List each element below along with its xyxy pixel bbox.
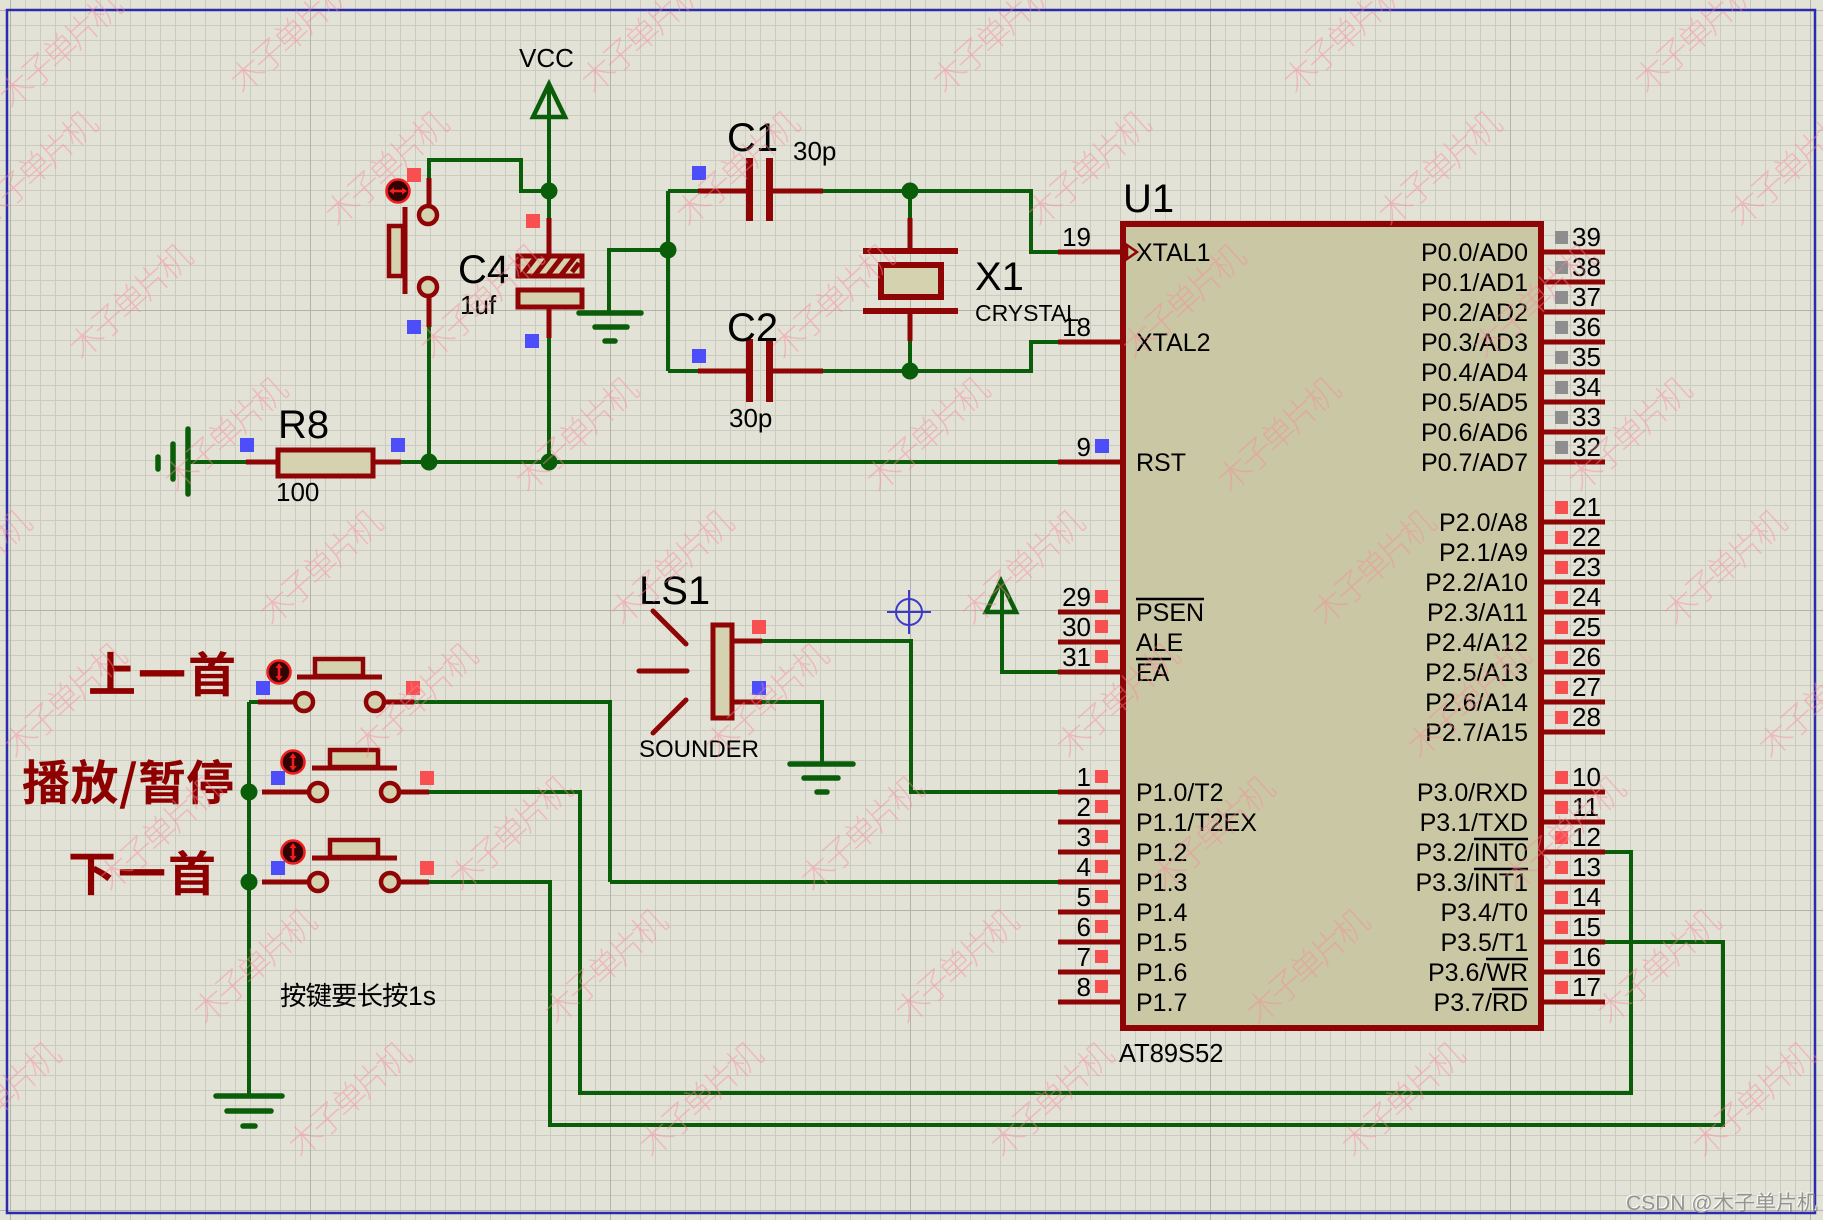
svg-text:P3.4/T0: P3.4/T0 — [1440, 899, 1528, 927]
svg-text:SOUNDER: SOUNDER — [639, 736, 759, 763]
svg-text:36: 36 — [1572, 312, 1601, 342]
svg-text:16: 16 — [1572, 942, 1601, 972]
svg-text:P2.0/A8: P2.0/A8 — [1439, 509, 1528, 537]
svg-text:P1.4: P1.4 — [1136, 899, 1188, 927]
svg-text:39: 39 — [1572, 222, 1601, 252]
svg-text:23: 23 — [1572, 552, 1601, 582]
svg-text:18: 18 — [1062, 312, 1091, 342]
svg-text:30p: 30p — [729, 403, 772, 433]
svg-text:P2.2/A10: P2.2/A10 — [1425, 569, 1528, 597]
svg-text:P3.7/RD: P3.7/RD — [1434, 989, 1528, 1017]
svg-text:17: 17 — [1572, 972, 1601, 1002]
svg-text:19: 19 — [1062, 222, 1091, 252]
svg-text:P1.5: P1.5 — [1136, 929, 1187, 957]
svg-text:XTAL1: XTAL1 — [1136, 239, 1211, 267]
svg-text:9: 9 — [1077, 432, 1091, 462]
svg-text:P0.6/AD6: P0.6/AD6 — [1421, 419, 1528, 447]
svg-text:100: 100 — [276, 477, 319, 507]
svg-text:P3.0/RXD: P3.0/RXD — [1417, 779, 1528, 807]
svg-text:P0.3/AD3: P0.3/AD3 — [1421, 329, 1528, 357]
svg-text:3: 3 — [1077, 822, 1091, 852]
svg-text:10: 10 — [1572, 762, 1601, 792]
svg-text:P0.1/AD1: P0.1/AD1 — [1421, 269, 1528, 297]
svg-text:U1: U1 — [1123, 177, 1174, 221]
svg-text:22: 22 — [1572, 522, 1601, 552]
svg-text:P2.3/A11: P2.3/A11 — [1427, 599, 1528, 627]
svg-text:X1: X1 — [975, 255, 1024, 299]
svg-text:P1.6: P1.6 — [1136, 959, 1187, 987]
svg-text:7: 7 — [1077, 942, 1091, 972]
svg-text:33: 33 — [1572, 402, 1601, 432]
svg-text:2: 2 — [1077, 792, 1091, 822]
svg-text:XTAL2: XTAL2 — [1136, 329, 1211, 357]
svg-text:LS1: LS1 — [639, 569, 710, 613]
svg-text:1s: 1s — [408, 981, 436, 1011]
svg-text:P1.0/T2: P1.0/T2 — [1136, 779, 1224, 807]
svg-text:31: 31 — [1062, 642, 1091, 672]
svg-text:RST: RST — [1136, 449, 1186, 477]
svg-text:P0.0/AD0: P0.0/AD0 — [1421, 239, 1528, 267]
svg-text:8: 8 — [1077, 972, 1091, 1002]
svg-text:37: 37 — [1572, 282, 1601, 312]
svg-text:27: 27 — [1572, 672, 1601, 702]
svg-text:25: 25 — [1572, 612, 1601, 642]
svg-text:15: 15 — [1572, 912, 1601, 942]
svg-text:P0.4/AD4: P0.4/AD4 — [1421, 359, 1528, 387]
svg-text:6: 6 — [1077, 912, 1091, 942]
svg-text:R8: R8 — [278, 403, 329, 447]
svg-text:P3.6/WR: P3.6/WR — [1428, 959, 1528, 987]
svg-text:P3.3/INT1: P3.3/INT1 — [1415, 869, 1528, 897]
svg-text:P2.1/A9: P2.1/A9 — [1439, 539, 1528, 567]
svg-text:P2.7/A15: P2.7/A15 — [1425, 719, 1528, 747]
svg-text:AT89S52: AT89S52 — [1119, 1040, 1223, 1068]
svg-text:12: 12 — [1572, 822, 1601, 852]
svg-text:13: 13 — [1572, 852, 1601, 882]
svg-text:PSEN: PSEN — [1136, 599, 1204, 627]
svg-text:26: 26 — [1572, 642, 1601, 672]
svg-text:VCC: VCC — [519, 43, 574, 73]
svg-text:29: 29 — [1062, 582, 1091, 612]
svg-text:5: 5 — [1077, 882, 1091, 912]
svg-text:CSDN @: CSDN @ — [1626, 1192, 1713, 1215]
svg-text:P0.7/AD7: P0.7/AD7 — [1421, 449, 1528, 477]
svg-text:P1.7: P1.7 — [1136, 989, 1187, 1017]
svg-text:P1.3: P1.3 — [1136, 869, 1187, 897]
svg-text:34: 34 — [1572, 372, 1601, 402]
svg-text:30: 30 — [1062, 612, 1091, 642]
svg-text:24: 24 — [1572, 582, 1601, 612]
svg-text:4: 4 — [1077, 852, 1091, 882]
svg-text:28: 28 — [1572, 702, 1601, 732]
svg-text:35: 35 — [1572, 342, 1601, 372]
svg-text:P0.5/AD5: P0.5/AD5 — [1421, 389, 1528, 417]
svg-text:C2: C2 — [727, 306, 778, 350]
svg-text:P3.1/TXD: P3.1/TXD — [1420, 809, 1528, 837]
svg-text:P2.4/A12: P2.4/A12 — [1425, 629, 1528, 657]
svg-text:1: 1 — [1077, 762, 1091, 792]
svg-text:30p: 30p — [793, 136, 836, 166]
svg-text:21: 21 — [1572, 492, 1601, 522]
svg-text:14: 14 — [1572, 882, 1601, 912]
svg-text:P1.1/T2EX: P1.1/T2EX — [1136, 809, 1257, 837]
svg-text:P3.5/T1: P3.5/T1 — [1440, 929, 1528, 957]
